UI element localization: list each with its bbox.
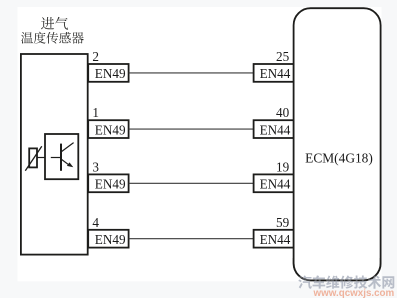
svg-text:EN44: EN44 <box>260 177 291 192</box>
svg-text:www.qcwxjs.com: www.qcwxjs.com <box>313 288 395 298</box>
svg-text:EN44: EN44 <box>260 122 291 137</box>
svg-text:EN49: EN49 <box>95 177 126 192</box>
connector EN44 pin 40 <box>254 105 294 138</box>
svg-text:1: 1 <box>92 105 99 120</box>
svg-text:2: 2 <box>92 49 99 64</box>
svg-text:ECM(4G18): ECM(4G18) <box>305 150 373 165</box>
svg-text:3: 3 <box>92 159 99 174</box>
svg-text:EN49: EN49 <box>95 232 126 247</box>
connector EN49 pin 3 <box>88 159 128 192</box>
ECM box bottom border over watermark <box>294 258 381 280</box>
connector EN49 pin 2 <box>88 49 128 82</box>
wire EN49 pin 2 to EN44 pin 25 <box>129 72 254 74</box>
svg-text:19: 19 <box>276 159 290 174</box>
connector EN44 pin 19 <box>254 159 294 192</box>
transistor Q1 <box>51 143 74 171</box>
svg-text:25: 25 <box>276 49 290 64</box>
svg-text:59: 59 <box>276 215 290 230</box>
wire: thermistor to inner module <box>37 157 45 159</box>
wire EN49 pin 1 to EN44 pin 40 <box>129 128 254 130</box>
intake air temperature sensor box <box>21 54 88 255</box>
label: intake air temperature sensor (Chinese) <box>21 17 84 44</box>
connector EN44 pin 25 <box>254 49 294 82</box>
sensor inner module box <box>45 134 78 179</box>
svg-text:EN49: EN49 <box>95 66 126 81</box>
connector EN49 pin 4 <box>88 215 128 248</box>
ECM (4G18) box <box>294 8 381 280</box>
wire EN49 pin 3 to EN44 pin 19 <box>129 182 254 184</box>
connector EN44 pin 59 <box>254 215 294 248</box>
wire EN49 pin 4 to EN44 pin 59 <box>129 238 254 240</box>
svg-text:EN44: EN44 <box>260 232 291 247</box>
svg-text:EN44: EN44 <box>260 66 291 81</box>
svg-text:4: 4 <box>92 215 99 230</box>
watermark: qcwxjs.com site name <box>298 275 394 298</box>
connector EN49 pin 1 <box>88 105 128 138</box>
svg-text:40: 40 <box>276 105 290 120</box>
svg-text:EN49: EN49 <box>95 122 126 137</box>
thermistor RT <box>25 146 42 171</box>
